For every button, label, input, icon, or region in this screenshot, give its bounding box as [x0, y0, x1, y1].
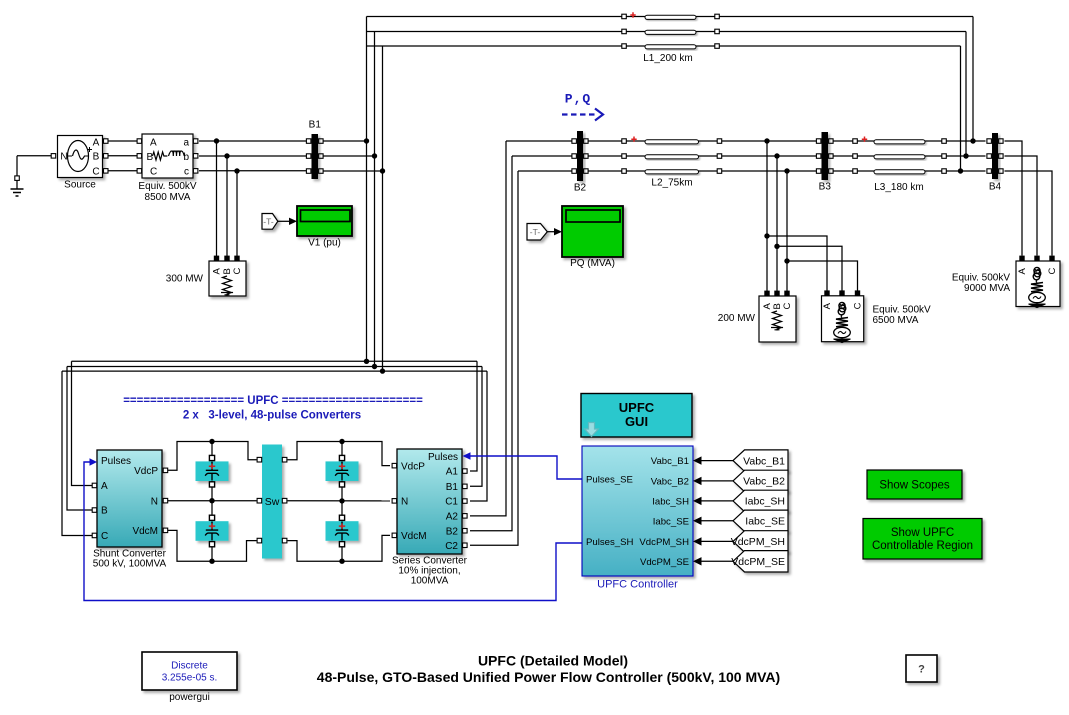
svg-text:Discrete: Discrete	[171, 661, 208, 672]
svg-text:V1 (pu): V1 (pu)	[308, 238, 341, 249]
svg-text:Controllable Region: Controllable Region	[872, 540, 973, 552]
svg-text:C: C	[101, 531, 108, 542]
svg-text:L2_75km: L2_75km	[651, 178, 692, 189]
svg-text:A: A	[212, 268, 223, 275]
svg-text:B: B	[101, 506, 108, 517]
svg-text:Equiv. 500kV: Equiv. 500kV	[873, 305, 932, 316]
svg-text:Pulses_SH: Pulses_SH	[586, 537, 634, 548]
svg-text:2 x 3-level, 48-pulse Conver: 2 x 3-level, 48-pulse Converters	[183, 410, 361, 422]
svg-text:PQ (MVA): PQ (MVA)	[570, 258, 615, 269]
svg-text:500 kV, 100MVA: 500 kV, 100MVA	[93, 559, 167, 570]
svg-text:Vabc_B2: Vabc_B2	[651, 477, 689, 488]
svg-text:B2: B2	[574, 183, 587, 194]
svg-text:A: A	[1017, 268, 1028, 275]
svg-text:VdcM: VdcM	[401, 531, 427, 542]
svg-text:VdcP: VdcP	[401, 461, 425, 472]
svg-text:================== UPFC ======: ================== UPFC ================…	[123, 395, 423, 407]
svg-text:VdcPM_SE: VdcPM_SE	[731, 556, 785, 568]
svg-text:C: C	[232, 268, 243, 275]
svg-text:Pulses: Pulses	[101, 456, 131, 467]
svg-text:B4: B4	[989, 182, 1002, 193]
svg-text:A: A	[101, 481, 108, 492]
svg-text:B1: B1	[446, 482, 459, 493]
svg-text:A: A	[93, 138, 100, 149]
svg-text:-T-: -T-	[530, 227, 541, 237]
svg-text:3.255e-05 s.: 3.255e-05 s.	[162, 673, 218, 684]
svg-text:Sw: Sw	[265, 496, 280, 508]
svg-text:Show Scopes: Show Scopes	[879, 480, 950, 492]
svg-text:b: b	[183, 152, 189, 163]
svg-text:B2: B2	[446, 526, 459, 537]
svg-text:L1_200 km: L1_200 km	[643, 53, 692, 64]
svg-text:a: a	[183, 138, 189, 149]
svg-text:VdcM: VdcM	[132, 526, 158, 537]
svg-text:L3_180 km: L3_180 km	[874, 182, 923, 193]
svg-text:C: C	[150, 167, 157, 178]
svg-text:Iabc_SH: Iabc_SH	[652, 497, 689, 508]
svg-text:C: C	[92, 167, 99, 178]
svg-text:-T-: -T-	[263, 217, 274, 227]
svg-text:Iabc_SE: Iabc_SE	[653, 516, 689, 527]
svg-text:300 MW: 300 MW	[166, 274, 204, 285]
svg-text:c: c	[184, 167, 189, 178]
svg-text:N: N	[401, 497, 408, 508]
svg-text:Vabc_B1: Vabc_B1	[743, 455, 785, 467]
svg-text:Vabc_B2: Vabc_B2	[743, 476, 785, 488]
svg-text:VdcP: VdcP	[134, 466, 158, 477]
svg-text:A1: A1	[446, 467, 459, 478]
svg-text:VdcPM_SE: VdcPM_SE	[640, 557, 689, 568]
svg-text:UPFC: UPFC	[619, 400, 655, 415]
svg-text:Equiv. 500kV: Equiv. 500kV	[138, 181, 197, 192]
svg-text:48-Pulse, GTO-Based Unified Po: 48-Pulse, GTO-Based Unified Power Flow C…	[317, 669, 780, 685]
svg-text:B1: B1	[309, 120, 322, 131]
svg-text:Show UPFC: Show UPFC	[891, 527, 954, 539]
svg-text:9000 MVA: 9000 MVA	[964, 283, 1010, 294]
svg-text:A: A	[822, 302, 833, 309]
svg-text:B: B	[147, 152, 154, 163]
svg-text:N: N	[151, 496, 158, 507]
svg-text:powergui: powergui	[169, 692, 210, 703]
svg-text:?: ?	[918, 664, 925, 676]
svg-text:C: C	[782, 303, 793, 310]
svg-text:Source: Source	[64, 180, 96, 191]
svg-text:UPFC (Detailed Model): UPFC (Detailed Model)	[478, 653, 628, 669]
svg-text:Vabc_B1: Vabc_B1	[651, 456, 689, 467]
svg-text:Iabc_SH: Iabc_SH	[745, 496, 785, 508]
svg-text:C1: C1	[445, 497, 458, 508]
svg-text:A: A	[150, 138, 157, 149]
svg-text:6500 MVA: 6500 MVA	[873, 315, 919, 326]
svg-text:C2: C2	[445, 541, 458, 552]
svg-text:N: N	[60, 152, 67, 163]
svg-text:100MVA: 100MVA	[411, 576, 449, 587]
svg-text:Pulses: Pulses	[428, 452, 458, 463]
svg-text:UPFC Controller: UPFC Controller	[597, 579, 678, 591]
svg-text:B3: B3	[819, 182, 832, 193]
svg-text:GUI: GUI	[625, 414, 648, 429]
svg-text:C: C	[1047, 268, 1058, 275]
svg-text:Pulses_SE: Pulses_SE	[586, 475, 633, 486]
svg-text:Equiv. 500kV: Equiv. 500kV	[952, 273, 1011, 284]
svg-text:200 MW: 200 MW	[718, 313, 756, 324]
svg-text:A2: A2	[446, 512, 459, 523]
svg-text:C: C	[853, 302, 864, 309]
svg-text:VdcPM_SH: VdcPM_SH	[731, 536, 785, 548]
svg-text:B: B	[93, 152, 100, 163]
svg-text:VdcPM_SH: VdcPM_SH	[639, 537, 689, 548]
svg-text:Iabc_SE: Iabc_SE	[745, 516, 785, 528]
svg-text:P,Q: P,Q	[565, 92, 591, 107]
svg-text:8500 MVA: 8500 MVA	[145, 192, 191, 203]
